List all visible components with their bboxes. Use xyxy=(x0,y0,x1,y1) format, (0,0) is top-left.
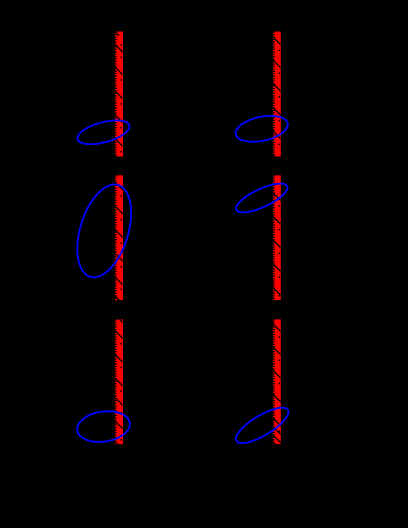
polarization ellipse E5 row3-left xyxy=(75,408,132,445)
mirror bar left column, top row: red hatched wall xyxy=(115,32,123,164)
mirror bar left column, bottom row: red hatched wall xyxy=(115,315,123,450)
mirror bar left column, middle row: red hatched wall xyxy=(115,175,123,304)
polarization ellipse E4 row2-right xyxy=(233,178,291,218)
polarization ellipse E6 row3-right xyxy=(231,401,293,449)
mirror bar right column, top row: red hatched wall xyxy=(273,32,281,164)
mirror bar right column, middle row: red hatched wall xyxy=(273,175,281,300)
polarization ellipse E2 row1-right xyxy=(233,112,290,146)
mirror bar right column, bottom row: red hatched wall xyxy=(273,319,281,446)
polarization ellipse E3 row2-left xyxy=(67,178,141,284)
polarization ellipse E1 row1-left xyxy=(75,116,132,149)
